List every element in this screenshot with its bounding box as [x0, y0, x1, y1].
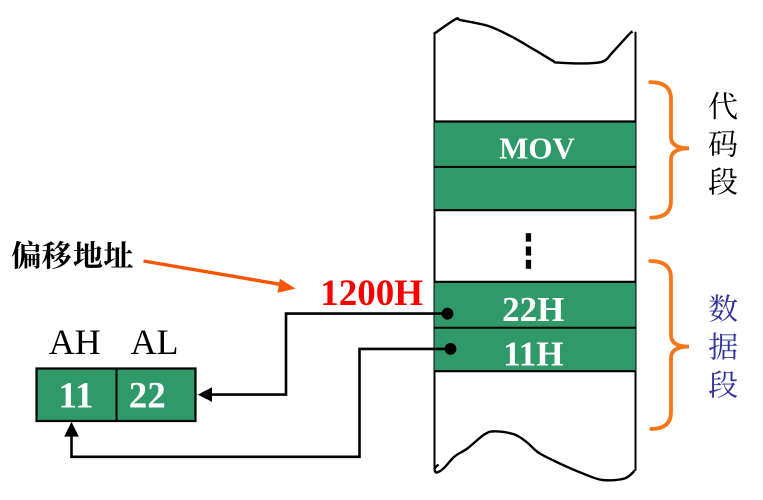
orange arrow from 偏移地址 to 1200H [144, 261, 296, 293]
orange brace for code segment [650, 82, 689, 218]
data segment band bottom border [434, 370, 637, 372]
memory strip torn bottom edge [435, 431, 635, 480]
label 偏移地址 (offset address) [12, 240, 133, 269]
memory strip torn top edge [434, 18, 633, 63]
vertical ellipsis dash 2 [526, 247, 531, 256]
vertical ellipsis dash 1 [526, 233, 531, 241]
line between MOV cell and cell below [434, 166, 637, 168]
line between 22H and 11H cells [434, 327, 637, 329]
code segment band bottom border [434, 209, 637, 211]
svg-text:11: 11 [59, 376, 94, 417]
junction dot on 22H cell [442, 308, 454, 320]
memory strip right border [635, 32, 637, 471]
register box AH|AL [37, 369, 196, 422]
svg-text:11H: 11H [503, 334, 563, 373]
MOV cell top border [434, 120, 637, 122]
arrowhead into AL cell [198, 387, 212, 402]
svg-text:AH: AH [49, 322, 101, 362]
svg-text:1200H: 1200H [320, 273, 423, 314]
label 数据段 (data segment) [709, 294, 737, 398]
memory strip left border [434, 33, 436, 471]
code segment green band (MOV cell + cell below) [435, 121, 636, 210]
vertical ellipsis dash 3 [526, 260, 531, 269]
junction dot on 11H cell [445, 343, 457, 355]
svg-text:MOV: MOV [499, 131, 575, 166]
svg-text:22: 22 [129, 376, 166, 417]
orange brace for data segment [650, 261, 689, 429]
arrowhead into AH cell bottom [64, 422, 79, 437]
label 代码段 (code segment) [709, 92, 737, 195]
svg-text:AL: AL [131, 322, 179, 362]
wire from 11H cell to AH arrowhead [72, 349, 451, 457]
wire from 22H cell to AL arrowhead [212, 314, 448, 395]
data segment green band (22H cell + 11H cell) [435, 282, 636, 372]
register box divider [116, 368, 118, 422]
svg-text:22H: 22H [502, 290, 564, 329]
22H cell top border [434, 281, 637, 283]
